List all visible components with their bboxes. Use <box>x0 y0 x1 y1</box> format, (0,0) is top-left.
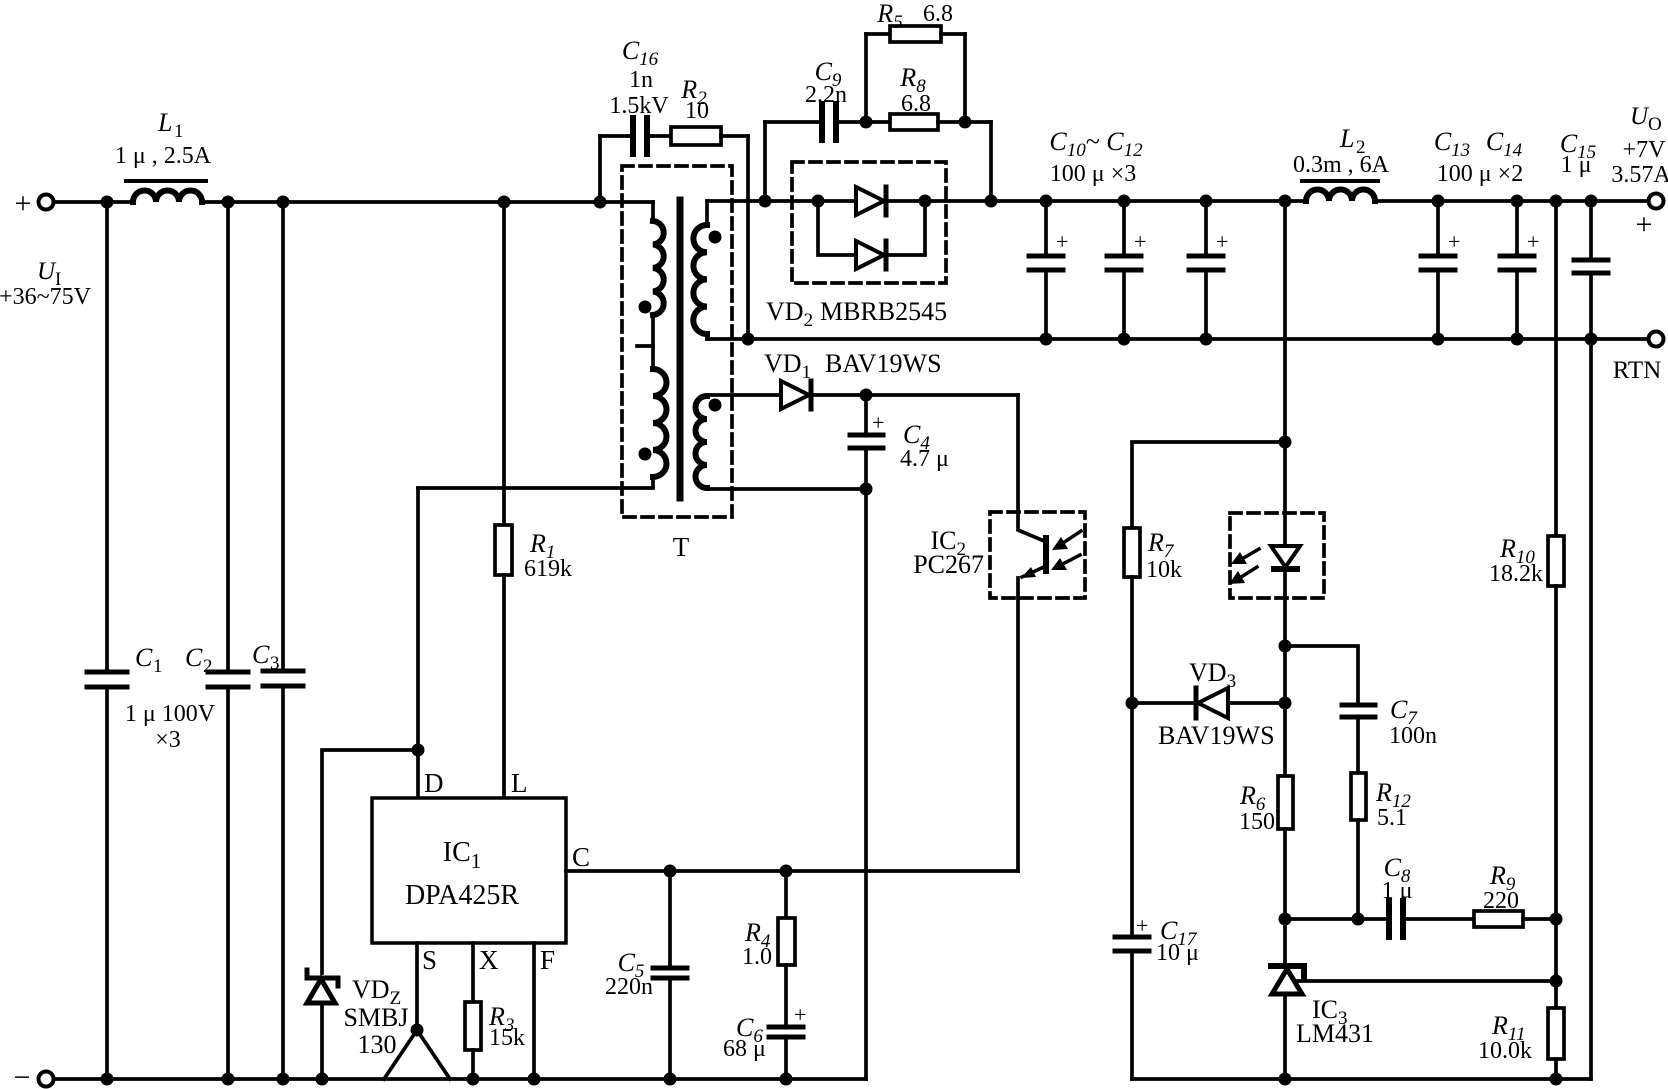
capacitor C3 <box>263 202 303 1079</box>
IC1 label <box>405 837 519 911</box>
C4 label <box>900 420 949 472</box>
wire bias return down to primary ground <box>864 489 868 1079</box>
VD1 label <box>764 349 942 383</box>
wire bias top lead to VD1 <box>707 393 781 397</box>
wire R7 branch <box>1132 442 1285 528</box>
svg-text:5.1: 5.1 <box>1377 805 1407 831</box>
resistor R9 <box>1474 911 1523 927</box>
opto light arrows <box>1051 531 1081 570</box>
node junction ground C5 <box>664 1073 677 1086</box>
transformer secondary winding <box>693 225 707 334</box>
LED dashed box <box>1230 513 1324 598</box>
svg-text:220n: 220n <box>605 974 653 1000</box>
svg-text:3.57A: 3.57A <box>1611 162 1668 188</box>
output RTN terminal <box>1649 332 1664 347</box>
svg-text:10 μ: 10 μ <box>1156 940 1199 966</box>
IC2 label <box>913 526 984 579</box>
node junction R9/R10 <box>1550 913 1563 926</box>
wire VD3 to feedback riser <box>1228 701 1285 705</box>
svg-text:100 μ ×2: 100 μ ×2 <box>1437 161 1523 187</box>
node primary phase dot lower <box>639 448 652 461</box>
wire C pin to opto emitter <box>566 869 1018 873</box>
node junction ground C6 <box>780 1073 793 1086</box>
transistor IC2 phototransistor <box>1021 538 1046 578</box>
node junction RTN C10 <box>1040 333 1053 346</box>
node junction out rail C10 <box>1040 195 1053 208</box>
wire secondary top lead <box>705 201 709 225</box>
op-amp IC3 LM431 <box>1271 966 1304 994</box>
wire S pin <box>415 943 419 1030</box>
capacitor C7 <box>1342 705 1375 717</box>
C9 label <box>805 57 847 108</box>
capacitor C9 <box>822 104 836 140</box>
svg-text:+: + <box>1134 229 1146 254</box>
svg-text:+: + <box>872 410 884 435</box>
svg-text:D: D <box>424 768 444 798</box>
VDZ label <box>343 975 408 1059</box>
svg-text:DPA425R: DPA425R <box>405 880 519 911</box>
svg-text:1 μ: 1 μ <box>1561 152 1592 178</box>
wire C16 to R2 <box>650 134 671 138</box>
svg-text:15k: 15k <box>489 1025 525 1051</box>
wire R10 line from output rail <box>1554 201 1558 536</box>
node junction R5/R8 right <box>959 116 972 129</box>
svg-text:1.0: 1.0 <box>742 944 772 970</box>
svg-text:1: 1 <box>153 656 163 677</box>
svg-text:0.3m , 6A: 0.3m , 6A <box>1293 152 1390 178</box>
resistor R2 <box>671 127 721 145</box>
node junction R7 tap <box>1279 436 1292 449</box>
svg-text:1.5kV: 1.5kV <box>609 93 669 119</box>
svg-text:+: + <box>794 1002 806 1027</box>
zener VDZ <box>307 970 338 1003</box>
svg-text:C: C <box>135 643 153 672</box>
C6 label <box>723 1013 766 1062</box>
svg-text:18.2k: 18.2k <box>1489 561 1543 587</box>
output UO terminal <box>1636 194 1664 242</box>
svg-text:3: 3 <box>270 653 280 674</box>
node junction input rail R1 <box>498 196 511 209</box>
C16 label <box>609 36 669 119</box>
wire VD3 link <box>1132 701 1195 705</box>
svg-text:1 μ 100V: 1 μ 100V <box>125 701 216 727</box>
svg-text:1n: 1n <box>629 67 653 93</box>
wire R2 down to RTN rail <box>721 134 748 138</box>
wire feedback main riser <box>1283 201 1287 546</box>
node junction C4 bottom <box>860 483 873 496</box>
svg-text:10: 10 <box>685 98 709 124</box>
capacitor C4 <box>850 395 884 489</box>
wire R8 to corner <box>938 120 991 124</box>
diode VD1 <box>781 381 811 409</box>
wire R4 riser <box>784 871 788 918</box>
resistor R3 <box>465 1002 481 1050</box>
node junction RTN C13 <box>1432 333 1445 346</box>
diode VD2 lower <box>856 241 886 269</box>
wire C9 riser <box>763 122 767 201</box>
resistor R7 <box>1124 528 1140 577</box>
node junction C8 row left <box>1279 913 1292 926</box>
svg-text:1: 1 <box>174 121 184 142</box>
IC2 optocoupler dashed box <box>990 512 1085 598</box>
R4 label <box>742 918 772 970</box>
wire VD1 to opto collector <box>813 393 1018 397</box>
node UI label <box>0 258 92 310</box>
R10 label <box>1489 534 1543 587</box>
wire secondary ground rail <box>1132 1077 1591 1081</box>
wire bias bottom lead <box>707 487 866 491</box>
node junction input rail C2 <box>222 196 235 209</box>
R9 label <box>1483 861 1519 914</box>
svg-text:X: X <box>479 945 499 975</box>
wire C7 to R12 <box>1356 717 1360 773</box>
wire S pin V diagonals <box>384 1030 450 1079</box>
svg-text:U: U <box>37 258 57 285</box>
resistor R5 <box>890 26 941 42</box>
node junction C9 tap <box>759 195 772 208</box>
node junction D/zener <box>412 744 425 757</box>
resistor R8 <box>890 114 938 130</box>
svg-text:4.7 μ: 4.7 μ <box>900 446 949 472</box>
wire R11 to ground <box>1554 1059 1558 1079</box>
transformer T dashed box <box>622 166 732 517</box>
resistor R1 <box>495 525 512 575</box>
inductor L1 <box>126 181 206 202</box>
wire primary ground rail <box>54 1077 866 1081</box>
wire C7 branch top <box>1285 646 1358 705</box>
svg-text:2: 2 <box>203 656 213 677</box>
node junction ground C3 <box>277 1073 290 1086</box>
capacitor C14 <box>1500 201 1539 339</box>
wire R7 to VD3 node <box>1130 577 1134 937</box>
svg-text:SMBJ: SMBJ <box>343 1003 408 1032</box>
node junction C4 top <box>860 389 873 402</box>
R2 label <box>680 75 709 124</box>
svg-text:BAV19WS: BAV19WS <box>1158 721 1275 750</box>
wire primary bottom lead to D net <box>418 477 653 488</box>
svg-text:BAV19WS: BAV19WS <box>825 349 942 378</box>
node junction C7 tap <box>1279 640 1292 653</box>
svg-text:L: L <box>511 768 528 798</box>
node junction C pin C5 <box>664 865 677 878</box>
node junction RTN C11 <box>1118 333 1131 346</box>
C7 label <box>1389 695 1437 749</box>
node junction R5/R8 left <box>860 116 873 129</box>
svg-text:S: S <box>422 945 437 975</box>
inductor L2 <box>1302 181 1378 201</box>
input - terminal <box>14 1061 54 1089</box>
resistor R11 <box>1548 1008 1564 1059</box>
svg-text:×3: ×3 <box>155 727 181 753</box>
svg-text:+7V: +7V <box>1623 137 1667 163</box>
wire R9 to R10 line <box>1523 917 1556 921</box>
svg-text:MBRB2545: MBRB2545 <box>820 297 947 326</box>
node junction ground C2 <box>222 1073 235 1086</box>
node junction ground C1 <box>101 1073 114 1086</box>
node junction R12 bottom <box>1352 913 1365 926</box>
C15 label <box>1560 129 1596 178</box>
svg-text:T: T <box>673 532 690 562</box>
C8 label <box>1382 853 1413 904</box>
svg-text:+: + <box>1448 229 1460 254</box>
wire RTN rail <box>707 337 1648 341</box>
C17 label <box>1156 916 1199 966</box>
node junction RTN C12 <box>1200 333 1213 346</box>
wire opto emitter lead <box>1016 578 1020 871</box>
svg-text:L: L <box>1339 124 1354 153</box>
capacitor C5 <box>653 871 687 1079</box>
capacitor C11 <box>1107 201 1146 339</box>
R3 label <box>488 1002 525 1051</box>
capacitor C10 <box>1029 201 1068 339</box>
node junction sec ground R11 <box>1550 1073 1563 1086</box>
node junction C pin R4 <box>780 865 793 878</box>
capacitor C6 <box>769 1002 806 1079</box>
transformer primary upper winding <box>653 221 664 315</box>
VD3 label <box>1158 658 1275 750</box>
wire zener to ground <box>320 1003 324 1079</box>
L1 label <box>115 108 212 169</box>
C1 C2 C3 labels <box>125 640 280 753</box>
node junction input rail C1 <box>101 196 114 209</box>
resistor R10 <box>1548 536 1564 586</box>
svg-text:U: U <box>1630 103 1650 130</box>
wire C8 to R9 <box>1406 917 1474 921</box>
wire snubber riser from input rail <box>598 136 602 202</box>
wire R10 to R11 <box>1554 586 1558 1008</box>
svg-text:RTN: RTN <box>1613 357 1662 384</box>
R6 label <box>1239 781 1275 835</box>
op-amp IC1 DPA425R box <box>372 798 566 943</box>
node junction input rail C3 <box>277 196 290 209</box>
R11 label <box>1478 1011 1532 1064</box>
node junction RTN C15 <box>1585 333 1598 346</box>
svg-text:+: + <box>1216 229 1228 254</box>
node junction ground VDZ <box>316 1073 329 1086</box>
svg-text:1 μ: 1 μ <box>1382 878 1413 904</box>
wire R12 to C8 node <box>1356 820 1360 919</box>
capacitor C1 <box>87 202 127 1079</box>
node junction out rail R10 <box>1550 195 1563 208</box>
R1 label <box>524 529 572 582</box>
node junction sec ground IC3 <box>1279 1073 1292 1086</box>
node junction ground F pin <box>528 1073 541 1086</box>
node junction RTN snubber <box>742 333 755 346</box>
resistor R4 <box>778 918 795 965</box>
wire D net riser <box>416 488 420 798</box>
capacitor C13 <box>1421 201 1460 339</box>
C13 C14 labels <box>1434 127 1523 187</box>
R8 label <box>899 63 931 117</box>
svg-text:+: + <box>1636 208 1653 241</box>
node junction IC3 ref <box>1550 975 1563 988</box>
svg-text:LM431: LM431 <box>1296 1019 1374 1048</box>
node junction VD3 cathode <box>1126 697 1139 710</box>
svg-text:C: C <box>572 842 590 872</box>
node junction S pin <box>411 1024 424 1037</box>
svg-text:F: F <box>540 945 555 975</box>
wire X pin <box>471 943 475 1002</box>
node secondary phase dot <box>709 231 722 244</box>
svg-text:C: C <box>185 643 203 672</box>
node junction VD2 parallel right <box>919 195 932 208</box>
transformer primary lower winding <box>653 369 667 477</box>
node junction out rail C14 <box>1511 195 1524 208</box>
wire RTN to secondary ground <box>1589 339 1593 1079</box>
svg-text:+: + <box>1056 229 1068 254</box>
capacitor C2 <box>208 202 248 1079</box>
wire input rail to transformer <box>202 200 653 204</box>
svg-text:−: − <box>14 1061 31 1089</box>
primary center tick mark <box>637 344 653 348</box>
C5 label <box>605 948 653 1000</box>
capacitor C17 <box>1115 913 1149 1079</box>
node junction snubber/rail <box>985 195 998 208</box>
wire primary mid link <box>651 315 655 369</box>
UO label <box>1611 103 1668 188</box>
capacitor C8 <box>1389 901 1403 937</box>
node junction input rail snubber <box>594 196 607 209</box>
VD2 dashed box <box>792 162 946 283</box>
wire secondary output rail <box>707 199 1306 203</box>
svg-text:10k: 10k <box>1146 557 1182 583</box>
node junction out rail C11 <box>1118 195 1131 208</box>
wire C8 row <box>1285 917 1386 921</box>
wire R1 line from input rail <box>502 202 506 525</box>
svg-text:L: L <box>157 108 172 137</box>
wire C9 to R8 <box>839 120 890 124</box>
L2 label <box>1293 124 1390 178</box>
svg-text:+: + <box>1136 913 1148 938</box>
svg-text:+: + <box>15 187 32 220</box>
wire R6 to IC3 <box>1283 829 1287 965</box>
svg-text:PC267: PC267 <box>913 550 984 579</box>
node junction out rail C12 <box>1200 195 1213 208</box>
wire R5 loop right riser <box>941 32 965 36</box>
wire snubber down to rail <box>989 122 993 201</box>
wire primary top lead <box>651 202 655 221</box>
wire IC3 ref lead <box>1296 979 1556 983</box>
svg-text:O: O <box>1648 114 1662 135</box>
wire zener link <box>322 750 418 973</box>
svg-text:100n: 100n <box>1389 723 1437 749</box>
VD2 label <box>766 297 947 331</box>
svg-text:68 μ: 68 μ <box>723 1036 766 1062</box>
resistor R12 <box>1351 773 1366 820</box>
svg-text:6.8: 6.8 <box>901 91 931 117</box>
svg-text:+36~75V: +36~75V <box>0 284 92 310</box>
svg-text:6.8: 6.8 <box>923 1 953 27</box>
resistor R6 <box>1278 776 1293 829</box>
svg-text:130: 130 <box>358 1030 397 1059</box>
R12 label <box>1375 778 1411 831</box>
svg-text:+: + <box>1527 229 1539 254</box>
capacitor C12 <box>1189 201 1228 339</box>
wire IC3 anode to ground <box>1283 994 1287 1079</box>
svg-text:10.0k: 10.0k <box>1478 1038 1532 1064</box>
svg-text:2.2n: 2.2n <box>805 82 847 108</box>
node junction VD3 anode <box>1279 697 1292 710</box>
node junction out rail C13 <box>1432 195 1445 208</box>
capacitor C16 <box>633 118 647 154</box>
svg-text:619k: 619k <box>524 556 572 582</box>
wire VD2 lower branch <box>818 201 925 255</box>
LED light arrows <box>1229 549 1259 584</box>
wire R3 to ground <box>471 1050 475 1079</box>
R5 label <box>876 0 953 33</box>
input + terminal <box>15 187 54 220</box>
wire F pin to ground <box>532 943 536 1079</box>
capacitor C15 <box>1574 201 1608 339</box>
node bias phase dot <box>709 399 722 412</box>
wire R4 to C6 <box>784 965 788 1027</box>
node junction out rail C15 <box>1585 195 1598 208</box>
wire LED to R6 <box>1283 569 1287 776</box>
IC3 label <box>1296 995 1374 1048</box>
node junction RTN C14 <box>1511 333 1524 346</box>
node junction VD2 parallel left <box>812 195 825 208</box>
diode VD3 <box>1196 688 1228 718</box>
svg-text:1 μ , 2.5A: 1 μ , 2.5A <box>115 143 212 169</box>
node primary phase dot upper <box>639 301 652 314</box>
C10-C12 label <box>1049 127 1143 187</box>
diode LED of IC2 <box>1271 546 1300 569</box>
node junction out rail L2 left <box>1279 195 1292 208</box>
svg-text:100 μ ×3: 100 μ ×3 <box>1050 161 1136 187</box>
transformer bias winding <box>696 396 707 488</box>
wire opto collector lead <box>1018 395 1044 541</box>
wire input rail left <box>54 200 133 204</box>
svg-text:C: C <box>252 640 270 669</box>
R7 label <box>1146 528 1182 583</box>
diode VD2 upper <box>856 187 886 215</box>
wire R1 to L pin <box>502 575 506 798</box>
wire secondary bottom lead to RTN <box>705 334 709 339</box>
node junction ground R3 <box>467 1073 480 1086</box>
wire R5 loop left riser <box>864 34 868 122</box>
transformer core bar <box>677 200 684 498</box>
svg-text:220: 220 <box>1483 888 1519 914</box>
svg-text:150: 150 <box>1239 809 1275 835</box>
